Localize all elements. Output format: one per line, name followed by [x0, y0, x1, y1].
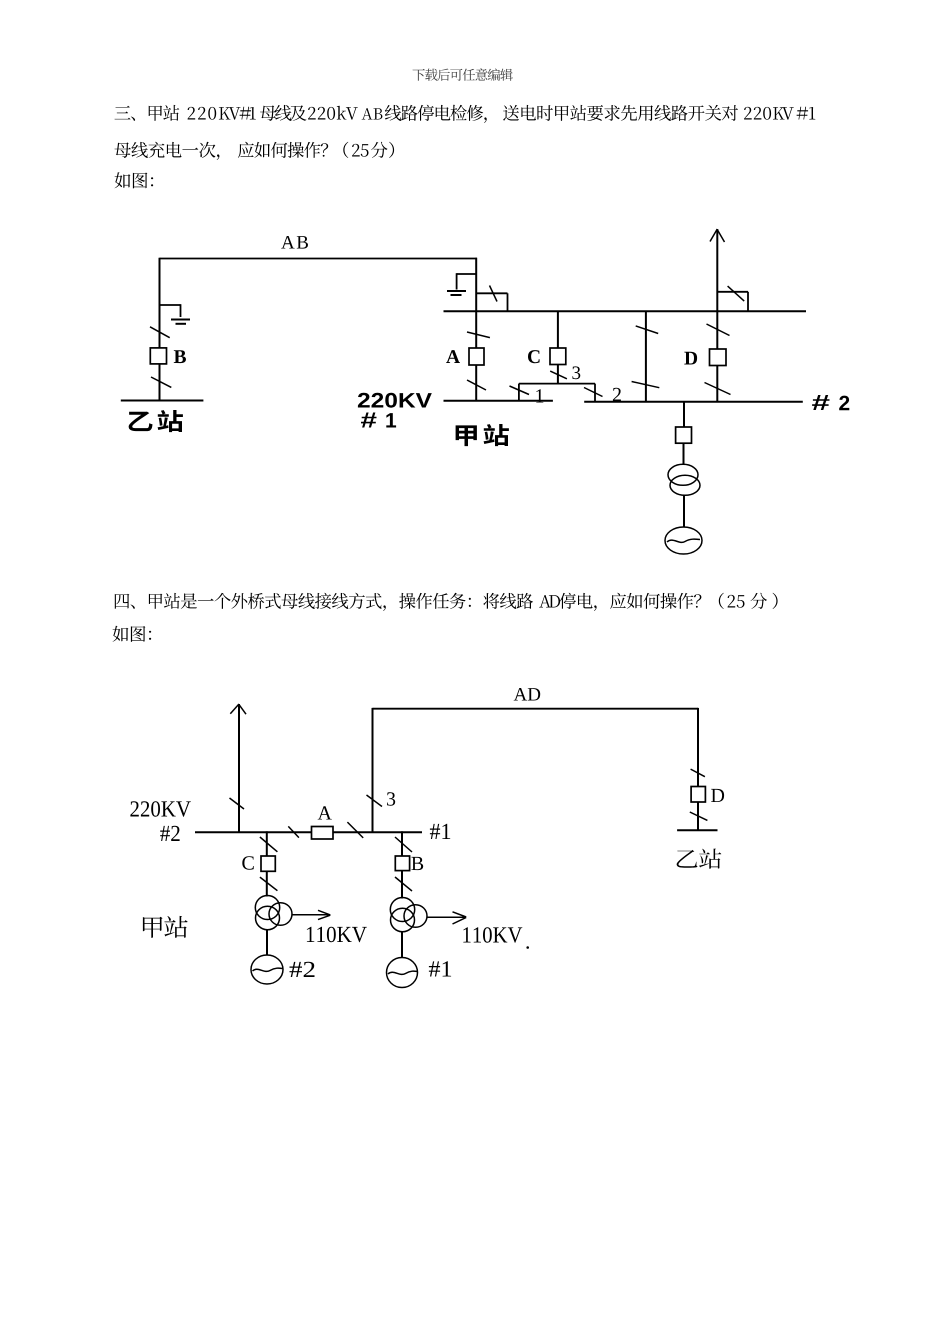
wire into transformer 1	[401, 871, 403, 899]
station label 甲站	[456, 424, 509, 446]
wire: B feeder vertical at 乙站	[159, 258, 161, 401]
transformer (two windings)	[668, 464, 698, 485]
label #1 generator	[429, 961, 451, 976]
bypass bracket at D feeder	[717, 291, 748, 293]
question 4 text	[115, 593, 778, 611]
busbar 甲站 upper	[444, 310, 807, 312]
earthing switch branch at A line	[457, 273, 477, 275]
station label 乙站	[129, 410, 183, 432]
wire: transformer branch below #2	[683, 402, 685, 427]
wire: middle tie vertical	[645, 311, 647, 402]
breaker B (d2)	[395, 856, 409, 871]
step wire at disconnector 2	[594, 384, 596, 402]
slash upper on middle tie	[636, 326, 659, 334]
label 2	[613, 388, 621, 401]
generator circle with wave	[665, 527, 702, 554]
bypass jumper bracket at A line	[476, 292, 507, 294]
busbar #1 right section (d2)	[333, 831, 422, 833]
question 3 text line 2	[115, 142, 395, 160]
slash disconnector 1	[510, 386, 530, 395]
disconnector slash above breaker B	[150, 327, 170, 338]
busbar #1 甲站	[444, 400, 553, 402]
slash disconnector 3	[550, 371, 567, 379]
如图 label 1	[115, 172, 154, 188]
label C	[528, 350, 540, 363]
label #1 busbar (d2)	[430, 824, 450, 839]
disconnector slash below breaker A	[467, 380, 486, 390]
generator #2 circle with wave	[251, 955, 283, 984]
arrow to 110KV (left)	[293, 914, 330, 916]
arrow to 110KV (right)	[427, 916, 465, 918]
wire busbar to breaker C (d2)	[266, 831, 268, 856]
label D (d2)	[711, 789, 724, 802]
question 3 text line 1	[115, 105, 816, 123]
wire into transformer 2	[266, 871, 268, 896]
slash on bypass jumper	[490, 286, 498, 302]
station label 乙站 (d2)	[677, 849, 722, 869]
disconnector slash below breaker B	[151, 377, 171, 387]
arrowhead at D feeder top	[710, 229, 717, 242]
disconnector slash below breaker D	[705, 383, 731, 395]
earthing switch branch at B line	[159, 304, 181, 306]
station label 甲站 (d2)	[143, 916, 188, 938]
slash above breaker D (d2)	[691, 769, 705, 777]
label #2	[812, 395, 829, 410]
slash below breaker C (d2)	[260, 877, 278, 891]
label #2 generator	[290, 962, 315, 977]
three-winding transformer #2	[255, 896, 279, 920]
label 110KV (right)	[463, 927, 522, 943]
slash on D bypass bracket	[728, 286, 745, 301]
label 1	[536, 389, 543, 402]
breaker D	[710, 349, 727, 366]
breaker C	[550, 348, 566, 365]
step wire at disconnector 1	[518, 384, 520, 401]
slash disconnector 3 (d2)	[367, 795, 383, 807]
label 110KV (left)	[307, 927, 367, 943]
line AD label	[514, 688, 541, 701]
label 220KV (d2)	[130, 801, 190, 817]
breaker D (d2)	[691, 787, 705, 803]
breaker C (d2)	[261, 856, 275, 871]
wire: D feeder vertical with arrow	[716, 229, 718, 402]
ground symbol at A line	[447, 290, 466, 292]
busbar #2 甲站	[584, 401, 803, 403]
bridge wire between 1 and 2	[519, 383, 595, 385]
slash right of bus-tie A	[347, 822, 363, 838]
wire busbar to breaker B (d2)	[401, 831, 403, 856]
slash lower on middle tie	[632, 382, 660, 388]
breaker on transformer branch	[676, 427, 692, 443]
header note 下载后可任意编辑	[413, 68, 513, 81]
label 220KV	[358, 393, 432, 408]
generator #1 circle with wave	[387, 958, 418, 988]
bus-tie breaker A (d2)	[312, 827, 334, 840]
busbar 乙站	[121, 400, 204, 402]
disconnector slash above breaker A	[467, 332, 490, 338]
slash below breaker D (d2)	[690, 812, 708, 820]
wire below breaker	[683, 443, 685, 464]
wire: AD left vertical	[372, 708, 374, 832]
wire: C branch vertical upper	[557, 311, 559, 348]
wire below breaker D (d2)	[697, 802, 699, 830]
wire to generator	[683, 496, 685, 528]
wire transformer to generator #1	[401, 932, 403, 958]
wire: line AD top	[373, 708, 699, 710]
label C (d2)	[242, 856, 253, 869]
arrowhead outgoing feeder	[230, 704, 239, 714]
如图 label 2	[113, 626, 152, 642]
label A (d2)	[318, 806, 332, 819]
slash disconnector 2	[584, 388, 603, 397]
label B	[174, 350, 186, 363]
wire transformer to generator #2	[266, 930, 268, 956]
label #2 busbar (d2)	[160, 826, 179, 841]
slash above breaker B (d2)	[395, 837, 412, 852]
breaker B	[150, 348, 166, 364]
label D	[684, 352, 697, 365]
busbar #2 left section (d2)	[195, 831, 312, 833]
slash on outgoing feeder	[230, 798, 245, 809]
breaker A	[469, 348, 484, 365]
label 3 (d2)	[387, 792, 395, 805]
line AB label	[281, 236, 308, 249]
wire: A feeder vertical	[475, 258, 477, 401]
slash below breaker B (d2)	[395, 877, 412, 891]
ground symbol at B line	[171, 319, 190, 321]
wire: outgoing feeder arrow (d2)	[238, 704, 240, 832]
label B (d2)	[411, 857, 423, 870]
label A	[446, 350, 460, 363]
wire: C branch vertical lower	[557, 365, 559, 384]
wire: line AB top	[160, 258, 478, 260]
disconnector slash above breaker D	[707, 324, 730, 336]
wire: AD right vertical	[697, 708, 699, 787]
three-winding transformer #1	[390, 898, 414, 922]
period dot after 110KV	[526, 946, 529, 949]
busbar 乙站 (d2)	[677, 829, 717, 831]
label 3	[572, 366, 580, 379]
slash left of bus-tie A	[288, 826, 299, 837]
slash above breaker C (d2)	[260, 837, 278, 852]
label ＃1	[361, 413, 377, 428]
